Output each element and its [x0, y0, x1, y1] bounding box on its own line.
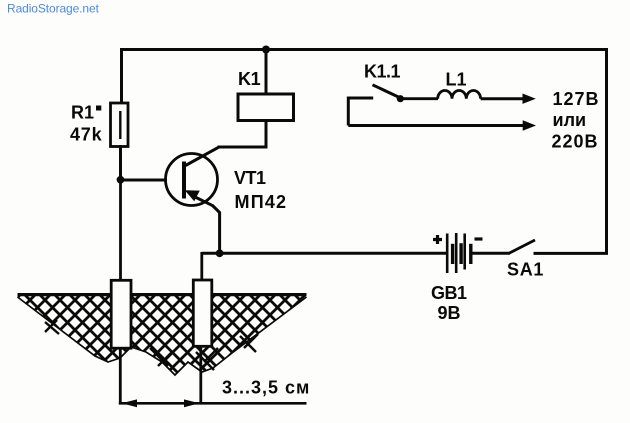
- svg-text:RadioStorage.net: RadioStorage.net: [7, 2, 100, 16]
- svg-text:GB1: GB1: [431, 283, 467, 303]
- ground surface line: [18, 293, 307, 296]
- wire R1 top lead: [120, 48, 123, 104]
- svg-text:МП42: МП42: [235, 192, 288, 212]
- wire relay top lead: [265, 48, 268, 94]
- wire top rail: [120, 48, 608, 51]
- svg-text:VT1: VT1: [234, 168, 266, 188]
- battery polarity +: [433, 235, 442, 244]
- wire arrow to 220V: [348, 120, 536, 130]
- svg-text:или: или: [553, 110, 587, 130]
- wire left electrode top lead: [119, 179, 122, 281]
- svg-text:R1: R1: [71, 103, 94, 123]
- node base junction: [117, 176, 125, 184]
- switch SA1 arm: [509, 240, 535, 253]
- svg-text:K1.1: K1.1: [364, 62, 401, 82]
- wire right electrode top lead: [200, 252, 203, 281]
- svg-text:3...3,5 см: 3...3,5 см: [222, 378, 310, 398]
- electrode E1: [111, 280, 131, 348]
- wire output left connector: [348, 98, 373, 126]
- battery polarity -: [475, 237, 483, 240]
- wire emitter lead: [213, 206, 220, 255]
- electrode E2: [193, 280, 212, 346]
- soil crosshatch: [18, 293, 307, 375]
- svg-text:220В: 220В: [552, 132, 599, 152]
- transistor VT1: [166, 147, 219, 206]
- svg-text:127В: 127В: [553, 89, 600, 109]
- switch contact K1.1: [373, 85, 404, 102]
- svg-text:47k: 47k: [70, 125, 103, 145]
- wire contact to L1: [403, 97, 438, 100]
- wire arrow to 127V: [481, 94, 536, 104]
- wire R1 bottom lead: [119, 145, 122, 182]
- wire left electrode bottom lead: [119, 348, 122, 405]
- wire battery rail: [202, 252, 446, 255]
- inductor L1: [438, 90, 481, 98]
- svg-text:K1: K1: [238, 69, 261, 89]
- wire battery to switch: [471, 252, 510, 255]
- battery GB1: [447, 233, 471, 273]
- dimension line: [119, 399, 307, 407]
- soil stray marks: [45, 320, 258, 370]
- svg-text:L1: L1: [446, 70, 467, 90]
- soil boundary edge: [18, 297, 307, 375]
- svg-text:9В: 9В: [438, 303, 461, 323]
- resistor R1: [111, 103, 129, 147]
- node emitter junction: [216, 249, 224, 257]
- wire switch to right border: [534, 252, 609, 255]
- relay coil K1: [238, 94, 294, 121]
- wire collector to relay: [218, 122, 267, 147]
- label R1*: [71, 103, 101, 123]
- wire right electrode bottom lead: [199, 346, 202, 405]
- wire base lead: [119, 179, 167, 182]
- svg-text:SA1: SA1: [507, 260, 544, 280]
- wire right border: [605, 48, 608, 255]
- node junction on top rail: [262, 46, 270, 54]
